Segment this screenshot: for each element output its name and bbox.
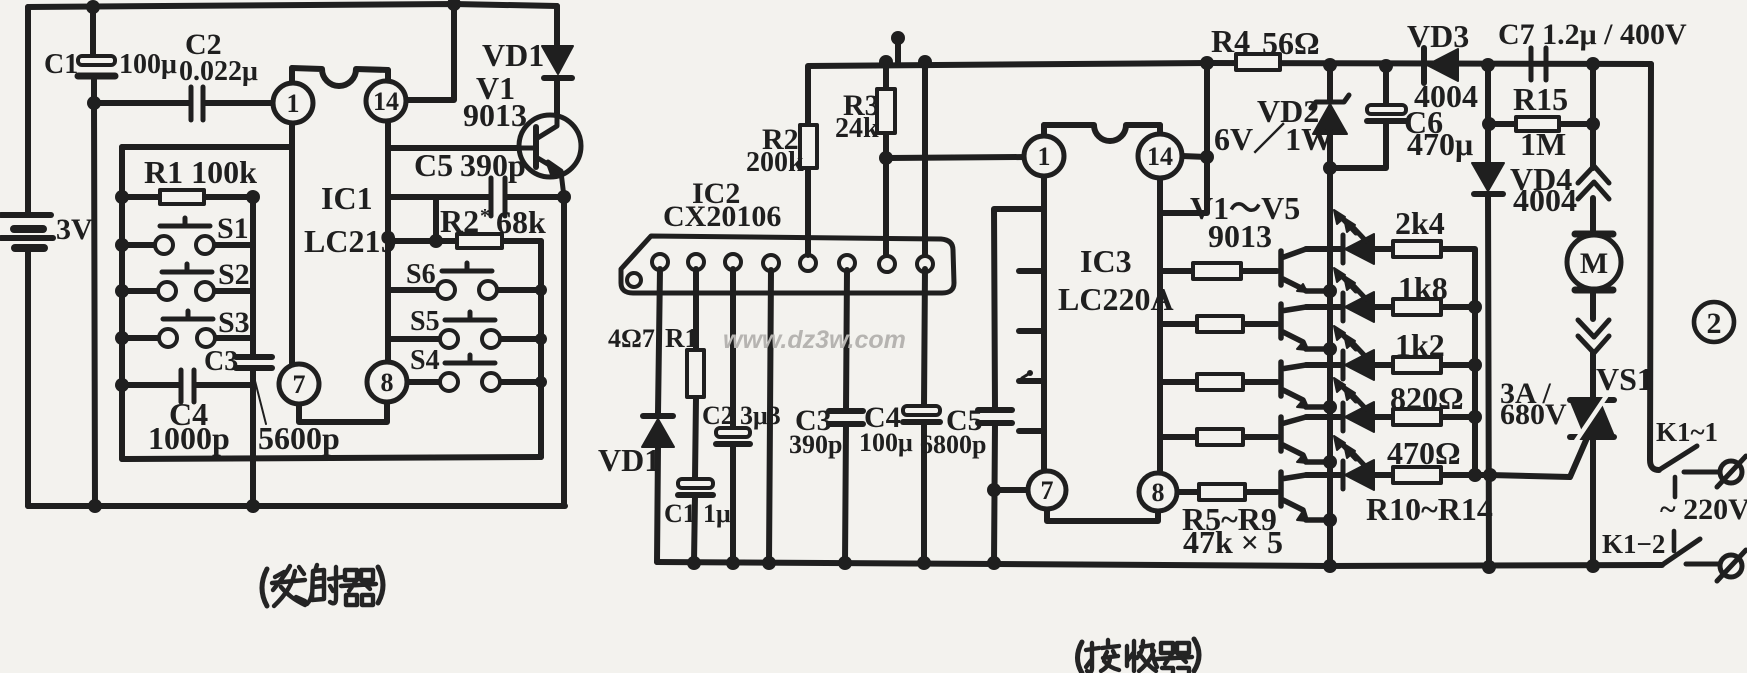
wire collector row2 — [1306, 304, 1475, 310]
svg-text:VD3: VD3 — [1407, 18, 1469, 54]
wire left border bottom — [25, 249, 31, 506]
wire middle vertical x253 through C3 — [250, 197, 256, 506]
diode VD1 receiver — [642, 416, 674, 447]
wire base row5 from pin8 — [1177, 489, 1277, 495]
wire bottom rail transmitter — [28, 503, 565, 509]
wire IC2 pin5 R2 riser — [805, 68, 811, 255]
wire 5600p callout line — [253, 373, 266, 424]
motor M arrows up — [1578, 166, 1609, 199]
caption jie-shou-qi (receiver) — [1078, 639, 1200, 673]
svg-text:VS1: VS1 — [1596, 361, 1653, 397]
wire C5 branch from IC3 — [994, 209, 1043, 563]
resistor R6 symbol — [1197, 316, 1243, 332]
switch S6 — [437, 263, 497, 299]
ic IC1 pin 8 circle — [367, 362, 407, 402]
wire collector row3 — [1306, 362, 1475, 368]
wire IC3 left stub pin3 — [1019, 328, 1044, 334]
resistor R2 200k symbol — [800, 125, 817, 168]
capacitor C1 symbol — [78, 56, 115, 76]
capacitor C5 6800p symbol — [978, 410, 1012, 423]
svg-text:R1: R1 — [665, 323, 698, 353]
resistor R14 470R symbol — [1393, 467, 1441, 483]
wire IC2 pin8 riser and C4 branch — [924, 62, 925, 563]
wire left border top (battery +) — [25, 7, 31, 214]
resistor R1 symbol — [160, 190, 204, 204]
svg-text:4Ω7: 4Ω7 — [608, 324, 655, 353]
wire IC1 right edge — [385, 70, 391, 364]
wire left keybox left vertical — [119, 147, 125, 459]
wire IC3 left edge — [1041, 125, 1047, 472]
wire pin14 to riser — [1161, 156, 1207, 213]
wire S3 row — [122, 335, 253, 341]
resistor R5 symbol — [1193, 263, 1241, 279]
switch S2 — [158, 264, 214, 300]
wire IC2 pin1 down through VD1 — [657, 269, 660, 562]
svg-text:1: 1 — [287, 89, 300, 118]
wire top rail transmitter — [28, 4, 557, 7]
resistor R12 1k2 symbol — [1393, 357, 1441, 373]
svg-text:VD1: VD1 — [598, 442, 660, 478]
wire bottom rail receiver — [657, 562, 1662, 566]
triac VS1 — [1570, 395, 1614, 444]
wire base row2 — [1160, 321, 1277, 327]
resistor R8 symbol — [1197, 429, 1243, 445]
svg-text:R4: R4 — [1211, 23, 1250, 59]
capacitor C4 100u symbol — [903, 406, 940, 422]
diode VD1 transmitter — [542, 46, 573, 78]
wire IC3 pin7 to C5 branch — [994, 487, 1028, 493]
svg-text:2k4: 2k4 — [1395, 205, 1445, 241]
svg-text:www.dz3w.com: www.dz3w.com — [723, 326, 906, 354]
resistor R10 2k4 symbol — [1393, 241, 1441, 257]
resistor R11 1k8 symbol — [1393, 299, 1441, 315]
svg-text:0.022μ: 0.022μ — [179, 56, 258, 87]
wire IC2 pin3 C2 branch — [730, 269, 736, 563]
svg-text:7: 7 — [1041, 476, 1054, 505]
junction dots receiver — [687, 31, 1600, 574]
wire IC3 right edge — [1157, 125, 1163, 474]
capacitor C2 symbol — [191, 87, 203, 120]
wire V1 base from IC1 — [388, 145, 535, 151]
resistor R2 68k symbol — [457, 234, 502, 248]
svg-text:S1: S1 — [217, 212, 249, 245]
wire C4 row — [122, 382, 253, 388]
switch S1 — [155, 218, 214, 254]
wire S4 row from pin8 — [407, 379, 541, 385]
svg-text:*: * — [480, 205, 490, 227]
svg-text:5600p: 5600p — [258, 420, 340, 456]
wire S2 row — [122, 288, 253, 294]
svg-text:4004: 4004 — [1513, 182, 1577, 218]
wire R2 68k row — [388, 238, 541, 244]
ic IC2 pin circles — [627, 254, 933, 287]
wire emitter down right side — [561, 197, 567, 506]
wire S6 row — [388, 287, 541, 293]
wire IC1 left edge — [289, 68, 295, 368]
resistor R13 820R symbol — [1393, 409, 1441, 425]
diode VD2 zener 6V1W — [1311, 95, 1349, 134]
capacitor C1 1u symbol — [678, 479, 713, 495]
svg-text:S2: S2 — [218, 258, 250, 291]
svg-text:R1 100k: R1 100k — [144, 154, 257, 190]
wire top rail corner down to K1-1 — [1650, 64, 1659, 470]
svg-text:14: 14 — [373, 87, 399, 116]
wire IC2 pin4 to bottom — [769, 270, 771, 563]
wire S5 row — [388, 336, 541, 342]
svg-text:LC219: LC219 — [304, 223, 396, 259]
switch S5 — [440, 312, 500, 348]
wire R3 junction to IC3 pin1 — [886, 157, 1025, 158]
svg-text:9013: 9013 — [1208, 218, 1272, 254]
motor arrows down — [1578, 320, 1609, 353]
resistor R9 symbol — [1199, 484, 1245, 500]
wire collector row5 and triac gate — [1306, 438, 1587, 477]
capacitor C2 3u3 symbol — [716, 428, 750, 444]
capacitor C3 390p symbol — [829, 411, 863, 424]
ic IC2 CX20106 body — [621, 236, 954, 293]
wire IC1 top edge with notch — [292, 68, 388, 86]
svg-text:IC3: IC3 — [1080, 243, 1132, 279]
motor M symbol — [1567, 234, 1621, 290]
ic IC3 pin4 stub tick — [1022, 373, 1030, 378]
wire riser to IC3 pin14 — [1204, 63, 1210, 157]
svg-text:C2: C2 — [702, 401, 734, 430]
wire supply blob tick — [895, 42, 901, 62]
svg-text:1k2: 1k2 — [1395, 327, 1445, 363]
svg-text:VD1: VD1 — [482, 37, 544, 73]
wire emitter rail x1330 through VD2 — [1327, 65, 1333, 566]
svg-text:S5: S5 — [410, 306, 440, 337]
wire C1 branch vertical — [93, 7, 95, 506]
svg-text:M: M — [1580, 247, 1608, 280]
wire IC3 left stub pin5 — [1019, 428, 1044, 434]
caption fa-she-qi (transmitter) — [262, 565, 383, 606]
wire IC1 bottom edge — [299, 400, 387, 422]
resistor R7 symbol — [1197, 374, 1243, 390]
wire IC2 pin2 R1 C1 branch — [694, 269, 696, 562]
wire right keybox vertical x541 — [538, 241, 544, 457]
svg-text:820Ω: 820Ω — [1390, 380, 1464, 416]
transistors V1-V5 with base bars — [1281, 249, 1329, 521]
svg-text:C1: C1 — [44, 49, 78, 80]
wire IC3 left stub pin4 — [1019, 378, 1044, 384]
RECEIVER-WIRES — [657, 42, 1662, 567]
wire C5 row — [388, 194, 564, 200]
wire base row3 — [1160, 379, 1277, 385]
switch K1-2 — [1662, 531, 1746, 581]
circled 2 figure number — [1694, 302, 1734, 342]
wire S1 row — [122, 242, 253, 248]
svg-text:S6: S6 — [406, 259, 436, 290]
svg-text:LC220A: LC220A — [1058, 281, 1174, 317]
svg-text:6V／1W: 6V／1W — [1214, 121, 1333, 157]
wire top rail receiver — [808, 63, 1651, 68]
wire left keybox bottom row — [122, 457, 541, 459]
wire base row4 — [1160, 434, 1277, 440]
svg-text:C7 1.2μ / 400V: C7 1.2μ / 400V — [1498, 18, 1687, 51]
svg-text:R2: R2 — [440, 203, 479, 239]
wire collector row4 — [1306, 414, 1475, 420]
svg-text:C3: C3 — [204, 346, 238, 377]
switch K1-1 — [1659, 446, 1746, 497]
svg-text:14: 14 — [1147, 142, 1173, 171]
svg-text:47k × 5: 47k × 5 — [1183, 524, 1283, 560]
svg-text:3μ3: 3μ3 — [740, 401, 781, 430]
svg-text:8: 8 — [1152, 478, 1165, 507]
transistor V1 9013 — [518, 115, 581, 197]
svg-text:100μ: 100μ — [859, 428, 913, 457]
svg-text:1000p: 1000p — [148, 420, 230, 456]
switch S4 — [440, 355, 500, 391]
wire IC1 pin14 to top rail riser — [404, 4, 454, 100]
svg-text:C5: C5 — [414, 147, 453, 183]
wire R1 row — [122, 194, 253, 200]
wire IC2 pin6 C3 branch — [845, 270, 847, 563]
svg-text:1: 1 — [1038, 142, 1051, 171]
ic IC1 pin 7 circle — [279, 364, 319, 404]
svg-text:1μ: 1μ — [703, 499, 731, 528]
wire IC2 pin7 R3 riser — [883, 62, 889, 255]
resistor R4 56R symbol — [1236, 54, 1280, 70]
svg-text:R10~R14: R10~R14 — [1366, 491, 1493, 527]
svg-text:R15: R15 — [1513, 81, 1568, 117]
svg-text:9013: 9013 — [463, 97, 527, 133]
svg-text:1M: 1M — [1520, 126, 1566, 162]
svg-text:K1~1: K1~1 — [1656, 417, 1718, 447]
capacitor C5 symbol — [491, 178, 505, 216]
ic IC1 pin 1 circle — [273, 83, 313, 123]
resistor R15 1M symbol — [1516, 117, 1559, 131]
svg-text:7: 7 — [293, 370, 306, 399]
wire VD4 branch x1489 — [1488, 65, 1489, 567]
svg-text:8: 8 — [381, 368, 394, 397]
svg-text:K1−2: K1−2 — [1602, 529, 1665, 559]
resistor R1 4R7 symbol — [687, 350, 704, 397]
wire collector row1 — [1306, 249, 1475, 475]
ic IC3 pin 14 circle — [1138, 134, 1182, 178]
svg-text:24k: 24k — [835, 113, 879, 144]
diode VD3 4004 — [1424, 48, 1458, 83]
wire base row1 — [1160, 268, 1277, 274]
svg-text:68k: 68k — [496, 204, 546, 240]
wire motor branch x1593 — [1590, 64, 1596, 566]
svg-text:390p: 390p — [789, 430, 842, 459]
junction dots transmitter — [86, 0, 571, 513]
svg-text:C1: C1 — [664, 499, 696, 528]
resistor R3 24k symbol — [877, 89, 895, 133]
wire IC3 left stub pin2 — [1019, 268, 1044, 274]
wire left keybox top row to IC1 — [122, 144, 292, 150]
svg-text:S4: S4 — [410, 345, 440, 376]
svg-text:680V: 680V — [1500, 398, 1567, 431]
diode VD4 4004 — [1472, 163, 1504, 194]
wire R15 row — [1489, 121, 1593, 127]
svg-text:CX20106: CX20106 — [663, 200, 781, 233]
svg-text:56Ω: 56Ω — [1262, 25, 1320, 61]
svg-text:3V: 3V — [56, 213, 93, 246]
capacitor C3 symbol — [236, 357, 272, 368]
wire C2 row — [95, 100, 276, 106]
switch S3 — [159, 311, 215, 347]
wire VD1 collector branch — [554, 6, 560, 122]
ic IC1 pin 14 circle — [366, 81, 406, 121]
wire C5 to R2 left riser — [433, 197, 439, 241]
wire C6 branch — [1330, 66, 1386, 168]
svg-text:6800p: 6800p — [920, 430, 986, 459]
svg-text:100μ: 100μ — [119, 49, 177, 80]
ic IC3 pin 1 circle — [1024, 136, 1064, 176]
svg-text:470Ω: 470Ω — [1387, 435, 1461, 471]
led VD rows with arrows — [1334, 210, 1374, 264]
ic IC3 pin 8 circle — [1139, 473, 1177, 511]
capacitor C4 symbol — [181, 370, 194, 402]
svg-text:S3: S3 — [218, 306, 250, 339]
ic IC3 pin 7 circle — [1028, 471, 1066, 509]
svg-text:1k8: 1k8 — [1398, 270, 1448, 306]
svg-text:390p: 390p — [460, 147, 526, 183]
wire IC3 top edge with notch — [1044, 125, 1160, 141]
svg-text:470μ: 470μ — [1407, 126, 1473, 162]
battery 3V — [1, 215, 53, 248]
svg-text:~ 220V: ~ 220V — [1660, 493, 1747, 526]
svg-text:200k: 200k — [746, 147, 804, 178]
svg-text:IC1: IC1 — [321, 180, 373, 216]
wire IC3 bottom edge — [1047, 504, 1158, 521]
capacitor C6 470u symbol — [1367, 105, 1406, 121]
capacitor C7 symbol — [1531, 48, 1546, 80]
svg-text:2: 2 — [1707, 307, 1722, 340]
